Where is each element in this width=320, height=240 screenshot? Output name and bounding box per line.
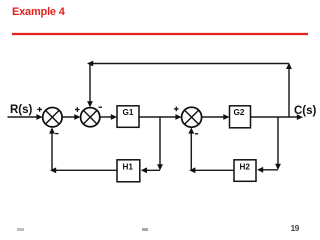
svg-text:H1: H1 xyxy=(123,163,134,172)
svg-text:G1: G1 xyxy=(123,108,134,117)
svg-text:C(s): C(s) xyxy=(294,105,317,117)
svg-text:R(s): R(s) xyxy=(10,104,33,116)
svg-text:H2: H2 xyxy=(240,163,251,172)
svg-text:G2: G2 xyxy=(234,108,245,117)
